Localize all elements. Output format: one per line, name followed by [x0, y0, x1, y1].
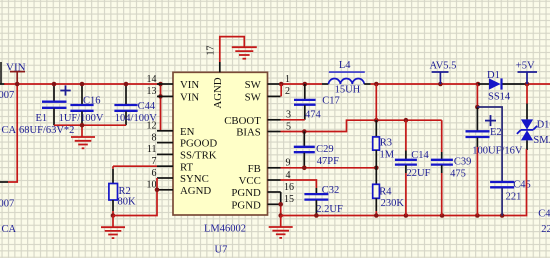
wire SW node — [279, 82, 322, 87]
svg-text:SS/TRK: SS/TRK — [180, 149, 217, 161]
wire PGND pins join — [278, 192, 283, 218]
svg-text:PGND: PGND — [231, 187, 261, 199]
pin 7 — [152, 156, 174, 167]
svg-text:3: 3 — [286, 110, 291, 121]
wire R2 bottom — [111, 200, 116, 218]
svg-text:68UF/63V*2: 68UF/63V*2 — [19, 125, 74, 136]
svg-text:15: 15 — [284, 194, 294, 205]
svg-text:C32: C32 — [322, 185, 340, 196]
svg-text:R4: R4 — [379, 187, 392, 198]
svg-text:PGND: PGND — [231, 199, 261, 211]
pin 3 CBOOT — [268, 110, 292, 121]
wire VCC — [281, 180, 317, 188]
svg-text:474: 474 — [305, 109, 322, 120]
svg-text:SW: SW — [245, 79, 262, 91]
wire R2 to SYNC/AGND — [113, 178, 159, 216]
svg-text:2: 2 — [285, 86, 290, 97]
svg-text:EN: EN — [180, 126, 195, 138]
pin 1 SW — [268, 74, 291, 85]
svg-text:SS14: SS14 — [488, 91, 511, 102]
power port +5V — [516, 61, 537, 85]
wire caps bottom — [54, 124, 126, 126]
svg-text:D1: D1 — [487, 70, 500, 81]
svg-text:16: 16 — [284, 182, 294, 193]
wire from VIN rail down-left to edge component — [0, 84, 17, 182]
svg-text:+5V: +5V — [516, 61, 535, 72]
svg-text:80K: 80K — [118, 196, 137, 207]
wire CBOOT — [281, 119, 305, 121]
ground top — [232, 47, 257, 59]
svg-text:1UF/100V: 1UF/100V — [59, 113, 104, 124]
svg-text:17: 17 — [206, 46, 217, 56]
svg-text:E2: E2 — [490, 127, 502, 138]
svg-text:C45: C45 — [513, 179, 531, 190]
svg-text:2.2UF: 2.2UF — [316, 204, 343, 215]
capacitor C39 — [431, 120, 472, 215]
pin 16 PGND — [268, 182, 295, 193]
svg-text:CBOOT: CBOOT — [224, 115, 261, 127]
capacitor C29 — [294, 132, 339, 168]
svg-text:BIAS: BIAS — [236, 127, 261, 139]
svg-text:AV5.5: AV5.5 — [430, 61, 457, 72]
svg-text:22UF: 22UF — [541, 224, 550, 235]
pin 5 BIAS — [268, 121, 292, 132]
resistor R4 — [373, 168, 405, 216]
capacitor E2 — [466, 107, 523, 216]
diode D1 SS14 — [478, 70, 527, 102]
wire TVS to ground rail — [526, 150, 527, 216]
svg-text:C29: C29 — [316, 144, 334, 155]
pin 9 FB — [268, 158, 291, 169]
inductor L4 — [322, 60, 371, 95]
svg-text:VIN: VIN — [180, 79, 199, 91]
svg-text:230K: 230K — [381, 198, 405, 209]
svg-text:L4: L4 — [339, 60, 351, 71]
ground left — [71, 125, 95, 148]
svg-text:FB: FB — [248, 163, 261, 175]
svg-text:E1: E1 — [36, 113, 48, 124]
pin names right — [224, 79, 261, 211]
wire FB — [281, 166, 379, 171]
svg-text:RT: RT — [180, 161, 194, 173]
svg-text:C16: C16 — [83, 96, 101, 107]
capacitor C44 — [114, 84, 157, 125]
svg-text:LM46002: LM46002 — [204, 224, 246, 235]
pin 12 — [147, 121, 174, 132]
wire pin17 to ground — [220, 37, 245, 62]
svg-text:22UF: 22UF — [407, 168, 431, 179]
svg-text:12: 12 — [147, 121, 157, 132]
svg-text:007: 007 — [0, 199, 14, 210]
wire +5V rail right — [525, 82, 550, 87]
svg-text:U7: U7 — [215, 244, 228, 255]
wire pin2 riser — [280, 84, 282, 96]
pin 8 — [152, 132, 174, 143]
svg-text:VCC: VCC — [239, 175, 261, 187]
wire RT to R2 — [113, 166, 157, 183]
svg-text:6: 6 — [152, 168, 157, 179]
pin 14 — [147, 74, 174, 85]
svg-text:1M: 1M — [380, 150, 395, 161]
pin 6 — [152, 168, 174, 179]
svg-text:PGOOD: PGOOD — [180, 138, 217, 150]
svg-text:SMAJ5.0: SMAJ5.0 — [533, 135, 550, 146]
capacitor C16 — [59, 84, 104, 125]
left edge cut component lead — [0, 62, 5, 84]
wire ground rail bottom — [281, 213, 526, 218]
svg-text:475: 475 — [450, 169, 466, 180]
svg-text:C17: C17 — [322, 96, 340, 107]
ground PGND — [269, 216, 293, 238]
capacitor C14 — [395, 120, 431, 215]
svg-text:007: 007 — [0, 90, 14, 101]
svg-text:SW: SW — [245, 91, 262, 103]
wire rail to VIN pins and EN — [158, 82, 163, 131]
svg-text:100UF/16V: 100UF/16V — [472, 146, 523, 157]
wire BIAS to VOUT — [281, 118, 442, 134]
pin 10 — [147, 180, 174, 191]
power port AV5.5 — [430, 61, 457, 85]
svg-text:C46: C46 — [538, 209, 550, 220]
svg-text:13: 13 — [147, 86, 157, 97]
wire VOUT vertical — [375, 84, 377, 120]
ground R2 — [101, 216, 125, 239]
wire C45 branch — [477, 107, 502, 181]
svg-text:CA: CA — [2, 224, 17, 235]
svg-text:C39: C39 — [454, 156, 472, 167]
pin 15 PGND — [268, 194, 295, 205]
svg-text:47PF: 47PF — [317, 156, 339, 167]
capacitor C32 — [304, 185, 343, 216]
resistor R2 — [109, 184, 136, 208]
wire L4 out to VOUT rail — [371, 82, 481, 87]
resistor R3 — [373, 120, 395, 168]
pin 13 — [147, 86, 174, 97]
pin names left — [180, 79, 217, 197]
capacitor C17 — [294, 84, 340, 120]
svg-text:SYNC: SYNC — [180, 173, 209, 185]
svg-text:VIN: VIN — [180, 91, 199, 103]
TVS diode D10 — [517, 84, 550, 150]
svg-text:AGND: AGND — [212, 77, 224, 108]
svg-text:C44: C44 — [138, 101, 156, 112]
wire E2 branch — [475, 84, 480, 109]
svg-text:AGND: AGND — [180, 185, 211, 197]
svg-text:C14: C14 — [411, 150, 429, 161]
svg-text:R3: R3 — [380, 138, 392, 149]
pin 17 top — [206, 46, 220, 73]
pin 11 — [147, 144, 173, 155]
wire VIN rail — [4, 83, 161, 85]
svg-text:221: 221 — [506, 192, 522, 203]
capacitor C45 — [490, 179, 531, 215]
pin 2 SW — [268, 86, 291, 97]
capacitor E1 — [19, 84, 74, 136]
op-amp U7 LM46002 body — [173, 72, 268, 255]
svg-text:15UH: 15UH — [335, 84, 361, 95]
node VIN rail junctions — [15, 82, 128, 128]
svg-text:11: 11 — [147, 144, 157, 155]
svg-text:8: 8 — [152, 132, 157, 143]
svg-text:D10: D10 — [537, 120, 550, 131]
power port VIN — [6, 61, 26, 84]
svg-text:CA: CA — [2, 125, 17, 136]
svg-text:14: 14 — [147, 74, 157, 85]
pin 4 VCC — [268, 170, 291, 181]
